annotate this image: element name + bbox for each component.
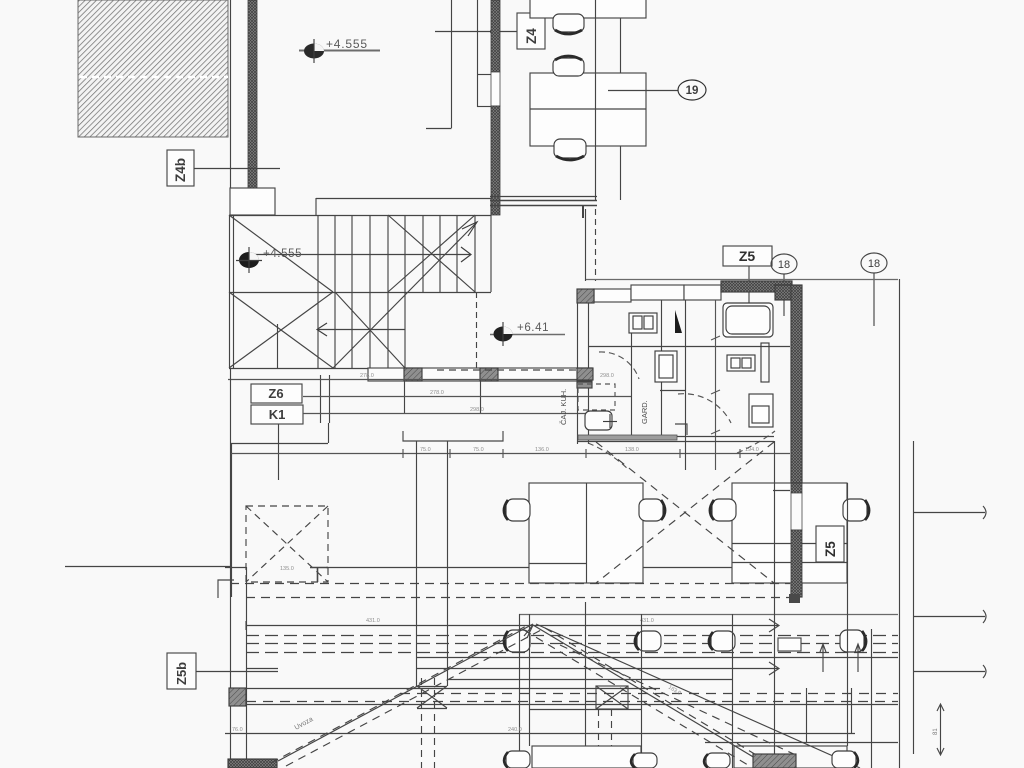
door leaf filled bbox=[675, 310, 682, 333]
svg-text:Z4b: Z4b bbox=[173, 158, 188, 182]
desk D1 top bbox=[530, 0, 646, 18]
stairs direction arrow long bbox=[333, 222, 477, 368]
gray block bottom right bbox=[753, 754, 796, 768]
chair row2 C9 bbox=[635, 631, 661, 651]
wire double studs right of labels bbox=[321, 375, 330, 423]
chair row2 C10 bbox=[709, 631, 735, 651]
dimension vertical small bbox=[933, 704, 944, 755]
svg-text:298.0: 298.0 bbox=[600, 373, 614, 379]
label Z5b bbox=[167, 653, 196, 689]
ramp right solid shallow bbox=[536, 624, 860, 768]
slab edge line top of rooms bbox=[586, 279, 898, 281]
svg-text:278.0: 278.0 bbox=[430, 390, 444, 396]
svg-text:18: 18 bbox=[868, 258, 880, 270]
bubble 19 bbox=[608, 80, 706, 100]
ramp right dashed a bbox=[524, 630, 748, 765]
corner bracket duct bbox=[310, 567, 328, 582]
dark block small bbox=[789, 594, 800, 603]
wall band below stairs bbox=[368, 368, 592, 414]
door arc kitchen dashed bbox=[599, 352, 639, 379]
wall W1 hatched vertical bbox=[248, 0, 257, 188]
door arc hall bbox=[678, 394, 731, 423]
door jamb top room bbox=[477, 0, 491, 107]
svg-text:+6.41: +6.41 bbox=[517, 322, 549, 334]
door arc lower right dashed bbox=[737, 431, 775, 453]
svg-text:Z6: Z6 bbox=[268, 386, 283, 401]
label Z4 bbox=[517, 13, 545, 49]
wire room corner top middle bbox=[426, 0, 452, 129]
chair C1 bbox=[553, 14, 584, 34]
chair C4 bbox=[504, 499, 530, 521]
dashed y701 bbox=[246, 701, 898, 703]
svg-text:Z4: Z4 bbox=[524, 28, 539, 44]
wire desk axis lines bbox=[596, 0, 621, 200]
dashed duct X box bbox=[246, 506, 328, 582]
dashed lines y635 y643 y652 bbox=[246, 636, 898, 653]
wire landing left wall bbox=[230, 215, 234, 368]
dimension line row3 bbox=[303, 407, 592, 414]
toilet right bbox=[749, 394, 773, 427]
chair C7 bbox=[843, 499, 869, 521]
chair C2 bbox=[553, 56, 584, 76]
svg-text:Uvoza: Uvoza bbox=[294, 716, 315, 732]
label Z5 rotated bbox=[816, 526, 844, 562]
stairs lower flight bbox=[229, 292, 577, 369]
rooms: Z5 label bbox=[723, 246, 772, 266]
small up arrows bbox=[820, 644, 861, 672]
svg-text:Z5: Z5 bbox=[739, 248, 756, 264]
wire leader Z5b bbox=[196, 671, 278, 673]
label Z6 bbox=[251, 384, 302, 403]
hline y733 bbox=[225, 727, 855, 734]
svg-text:+4.555: +4.555 bbox=[326, 37, 368, 51]
dark block bottom left bbox=[228, 759, 277, 768]
chair row3 C13 bbox=[631, 753, 657, 768]
hline y688 bbox=[246, 688, 660, 690]
level marker +6.41 bbox=[490, 322, 565, 346]
ramp right dashed b bbox=[545, 628, 768, 762]
wall W2 outline block bbox=[230, 188, 275, 215]
terrace hatch slab bbox=[78, 0, 228, 137]
stairs upper flight bbox=[229, 198, 491, 293]
solid arrow line y669 bbox=[417, 662, 779, 675]
svg-text:135.0: 135.0 bbox=[280, 566, 294, 572]
chair C6 bbox=[710, 499, 736, 521]
bubble 18 a bbox=[771, 254, 797, 316]
dashed y693 bbox=[400, 693, 898, 695]
chair row2 C11 bbox=[840, 630, 866, 652]
stairs X upper bbox=[388, 215, 475, 292]
desk bottom G1 bbox=[532, 746, 641, 768]
svg-text:136.0: 136.0 bbox=[535, 447, 549, 453]
chair C5 bbox=[639, 499, 665, 521]
svg-text:GARD.: GARD. bbox=[640, 400, 649, 424]
toilet kitchen room bbox=[585, 411, 617, 430]
wire leader Z4 bbox=[435, 30, 517, 34]
long floor line mid bbox=[225, 567, 782, 569]
ramp left dashed a bbox=[271, 626, 526, 763]
wire leader K1 down bbox=[278, 424, 280, 480]
hline y704 bbox=[246, 704, 898, 706]
wall W3 hatched vertical with door gap bbox=[491, 0, 500, 215]
stairs X landing bbox=[229, 215, 333, 368]
dashed floor line a bbox=[230, 583, 790, 585]
thin line y614 bbox=[519, 614, 898, 616]
branch hline 2 bbox=[913, 610, 986, 623]
chair row2 C8 bbox=[504, 630, 530, 652]
gray block left wall bbox=[229, 688, 246, 706]
svg-text:75.0: 75.0 bbox=[420, 447, 431, 453]
wire leader Z5 bbox=[748, 266, 750, 321]
svg-text:76.0: 76.0 bbox=[232, 727, 243, 733]
wire dashed wall axis bbox=[595, 209, 597, 281]
ramp left solid bbox=[278, 624, 533, 761]
wall right vertical of rooms bbox=[791, 285, 802, 597]
hline y742 bbox=[705, 742, 898, 744]
level marker +4.555 stairs bbox=[236, 247, 302, 273]
desk D2 bbox=[530, 73, 646, 146]
dim line y625 bbox=[246, 618, 779, 632]
rooms top wall bbox=[577, 281, 792, 303]
wire vertical left boundary top bbox=[230, 0, 232, 188]
dashed shower box kitchen bbox=[578, 384, 615, 410]
closet unit bbox=[629, 313, 657, 333]
bubble 18 b bbox=[861, 253, 887, 326]
X box shaft bbox=[417, 686, 447, 709]
label Z4b bbox=[167, 150, 194, 186]
shaft column bbox=[417, 441, 448, 686]
branch hline 3 bbox=[913, 665, 986, 678]
wire wall edge to rooms bbox=[585, 209, 587, 281]
wall lines below desks bbox=[490, 197, 597, 219]
svg-text:ČAJ. KUH.: ČAJ. KUH. bbox=[559, 389, 568, 425]
svg-text:278.0: 278.0 bbox=[360, 373, 374, 379]
svg-text:K1: K1 bbox=[269, 407, 286, 422]
wire right border long bbox=[899, 279, 901, 768]
svg-text:298.0: 298.0 bbox=[470, 407, 484, 413]
desk E1 bbox=[529, 483, 643, 583]
solid line y657 bbox=[417, 657, 898, 659]
wire dashed stair edge bbox=[476, 292, 478, 368]
svg-text:Z5: Z5 bbox=[823, 541, 838, 557]
rooms interior partitions bbox=[588, 300, 790, 470]
level marker +4.555 top bbox=[299, 37, 380, 63]
svg-text:18: 18 bbox=[778, 259, 790, 271]
ramp right solid steep bbox=[533, 625, 760, 761]
wall overlay on desk bbox=[791, 483, 802, 597]
label K1 bbox=[251, 405, 303, 424]
wire left wall bottom verticals bbox=[231, 368, 247, 768]
svg-text:81: 81 bbox=[933, 728, 939, 735]
ramp dashed shallow bbox=[560, 645, 800, 757]
dashed X large bbox=[596, 442, 774, 583]
wire right inner border bbox=[913, 441, 915, 754]
svg-text:75.0: 75.0 bbox=[473, 447, 484, 453]
room left wall bbox=[577, 303, 593, 444]
bathtub bbox=[723, 303, 773, 337]
desk F1 tall bbox=[520, 614, 642, 768]
left area floor line bbox=[65, 566, 230, 568]
door arc bottom dashed bbox=[588, 443, 629, 470]
hline y679 bbox=[447, 679, 732, 681]
shower tray gard bbox=[655, 351, 677, 382]
rooms bottom wall lines bbox=[578, 424, 774, 442]
X box mid bbox=[596, 686, 628, 709]
dashed floor line b bbox=[246, 597, 800, 599]
dimension line row4 bbox=[230, 447, 790, 458]
sink unit right bbox=[727, 343, 769, 382]
svg-text:240.0: 240.0 bbox=[508, 727, 522, 733]
ramp peak arrow bbox=[524, 625, 533, 638]
chair C3 bbox=[554, 139, 586, 160]
white opening right wall bbox=[778, 638, 801, 651]
desk E2 bbox=[732, 483, 847, 583]
chair row3 C12 bbox=[504, 751, 530, 768]
wire box under K1 bbox=[231, 423, 329, 597]
wire leader Z4b bbox=[194, 168, 280, 170]
svg-text:138.0: 138.0 bbox=[625, 447, 639, 453]
svg-text:431.0: 431.0 bbox=[366, 618, 380, 624]
chair row3 C14 bbox=[704, 753, 730, 768]
dimension line row2 bbox=[303, 390, 631, 397]
svg-text:163.0: 163.0 bbox=[667, 685, 682, 697]
ramp left dashed b bbox=[286, 630, 541, 766]
dashed shaft verticals bbox=[422, 678, 612, 768]
stairs arrow horizontal bbox=[252, 247, 471, 262]
branch hline 1 bbox=[913, 506, 986, 519]
svg-text:Z5b: Z5b bbox=[174, 662, 189, 685]
dimension bracket bbox=[403, 431, 503, 441]
dimension line row1 bbox=[228, 373, 614, 380]
wire corner step left bbox=[218, 580, 234, 598]
bottom verticals bbox=[586, 441, 872, 768]
chair row3 C15 bbox=[832, 751, 858, 768]
desk bottom G2 bbox=[734, 746, 847, 768]
svg-text:19: 19 bbox=[686, 85, 699, 97]
